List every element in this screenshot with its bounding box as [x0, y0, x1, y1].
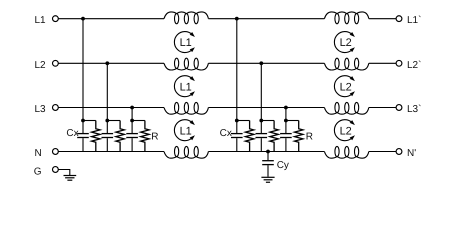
capacitor Cy [267, 152, 269, 161]
resistor R [141, 121, 149, 152]
svg-text:L2: L2 [340, 81, 352, 93]
wire branch mid1 vertical [236, 19, 238, 133]
svg-text:L2: L2 [35, 60, 47, 71]
node junction stub [105, 119, 109, 123]
terminal L3' [396, 105, 402, 111]
capacitor Cx plates [102, 133, 114, 135]
wire L2 middle [208, 62, 324, 64]
choke winding-sense symbol L2 [334, 32, 355, 53]
wire stub to resistor [237, 120, 250, 122]
wire L3 left [58, 107, 164, 109]
inductor winding L1 row L1 [164, 12, 208, 24]
capacitor Cx plates [256, 133, 268, 135]
resistor R [295, 121, 303, 152]
terminal N' [396, 149, 402, 155]
wire L3 middle [208, 107, 324, 109]
node junction on L1 [81, 17, 85, 21]
svg-text:L1: L1 [180, 81, 192, 93]
svg-text:R: R [306, 132, 313, 143]
svg-text:R: R [151, 132, 158, 143]
capacitor Cx plates [231, 133, 243, 135]
svg-text:L2`: L2` [407, 60, 421, 71]
inductor winding L1 row L2 [164, 58, 208, 70]
terminal N [53, 149, 59, 155]
choke winding-sense symbol L1 [174, 32, 195, 53]
wire branch mid2 vertical [260, 63, 262, 133]
resistor R [116, 121, 124, 152]
resistor R [270, 121, 278, 152]
wire stub to resistor [286, 120, 299, 122]
choke winding-sense symbol L1 [174, 76, 195, 97]
wire L2 right [369, 62, 396, 64]
svg-text:N': N' [407, 148, 416, 159]
wire N right [369, 151, 396, 153]
terminal L2 [53, 60, 59, 66]
resistor R [245, 121, 253, 152]
terminal L1' [396, 16, 402, 22]
wire L1 middle [208, 18, 324, 20]
svg-text:L1: L1 [35, 15, 47, 26]
node junction on L1 [235, 17, 239, 21]
wire branch left2 vertical [106, 63, 108, 133]
node junction on L3 [130, 106, 134, 110]
wire stub to resistor [83, 120, 96, 122]
resistor R [92, 121, 100, 152]
wire L3 right [369, 107, 396, 109]
node junction stub [284, 119, 288, 123]
choke winding-sense symbol L2 [334, 76, 355, 97]
wire N left [58, 151, 164, 153]
node junction stub [130, 119, 134, 123]
inductor winding L2 row L1 [324, 12, 368, 24]
terminal G [53, 167, 59, 173]
node junction on L2 [259, 61, 263, 65]
wire stub to resistor [107, 120, 120, 122]
svg-text:N: N [35, 148, 42, 159]
inductor winding L2 row L2 [324, 58, 368, 70]
svg-text:L3`: L3` [407, 104, 421, 115]
wire branch left1 vertical [82, 19, 84, 133]
wire G [58, 170, 70, 176]
inductor winding L1 row L3 [164, 102, 208, 114]
svg-text:Cx: Cx [66, 128, 78, 139]
svg-text:L2: L2 [340, 125, 352, 137]
wire N middle [208, 151, 324, 153]
capacitor Cx plates [126, 133, 138, 135]
node junction stub [259, 119, 263, 123]
wire stub to resistor [261, 120, 274, 122]
wire L1 left [58, 18, 164, 20]
wire branch mid3 vertical [285, 108, 287, 134]
svg-text:L1: L1 [180, 37, 192, 49]
svg-text:L1`: L1` [407, 15, 421, 26]
capacitor Cx plates [77, 133, 89, 135]
inductor winding L2 row N [324, 146, 368, 158]
ground G [64, 176, 77, 181]
svg-text:L3: L3 [35, 104, 47, 115]
wire L2 left [58, 62, 164, 64]
inductor winding L2 row L3 [324, 102, 368, 114]
svg-text:Cx: Cx [220, 128, 232, 139]
wire stub to resistor [132, 120, 145, 122]
node junction on L3 [284, 106, 288, 110]
terminal L2' [396, 60, 402, 66]
choke winding-sense symbol L1 [174, 120, 195, 141]
choke winding-sense symbol L2 [334, 120, 355, 141]
node junction on L2 [105, 61, 109, 65]
inductor winding L1 row N [164, 146, 208, 158]
svg-text:Cy: Cy [277, 160, 289, 171]
node junction Cy on N [266, 150, 270, 154]
wire branch left3 vertical [131, 108, 133, 134]
ground Cy [261, 177, 274, 182]
wire L1 right [369, 18, 396, 20]
capacitor Cx plates [280, 133, 292, 135]
terminal L3 [53, 105, 59, 111]
node junction stub [235, 119, 239, 123]
node junction stub [81, 119, 85, 123]
terminal L1 [53, 16, 59, 22]
svg-text:L2: L2 [340, 37, 352, 49]
svg-text:L1: L1 [180, 125, 192, 137]
svg-text:G: G [34, 166, 42, 177]
